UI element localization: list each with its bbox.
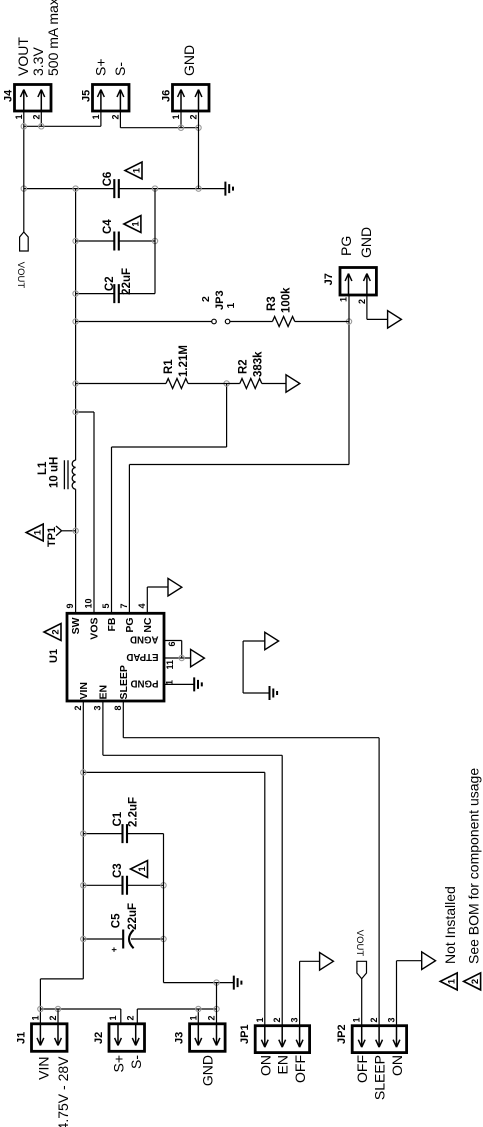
svg-text:2: 2 — [369, 1017, 379, 1022]
svg-text:OFF: OFF — [354, 1055, 370, 1083]
svg-text:1: 1 — [30, 1015, 40, 1020]
capacitor C5 polarized — [122, 930, 124, 949]
resistor R2 — [240, 379, 262, 389]
junction J1 pin1 tie — [38, 1006, 43, 1011]
svg-text:S+: S+ — [111, 1055, 127, 1073]
triangle 1 marker at C4 — [124, 216, 141, 233]
svg-text:R2: R2 — [238, 359, 250, 374]
svg-text:L1: L1 — [37, 461, 49, 475]
svg-text:EN: EN — [97, 685, 109, 700]
svg-text:3: 3 — [290, 1017, 300, 1022]
wire C5 to input GND rail — [131, 938, 164, 940]
wire FB pin 5 to divider tap — [112, 384, 227, 614]
wire C3 to input GND rail — [127, 884, 164, 886]
net flag VOUT at JP2 — [357, 961, 367, 978]
svg-text:10 uH: 10 uH — [49, 457, 61, 488]
junction AGND-ETPAD — [179, 655, 184, 660]
connector J1 — [32, 1024, 68, 1052]
ground triangle AGND of net tie — [265, 632, 279, 650]
ground symbol GND of net tie — [270, 686, 278, 700]
svg-text:2: 2 — [73, 706, 83, 711]
svg-text:1: 1 — [338, 297, 348, 302]
wire VIN to J1 pin 1 — [40, 979, 83, 1024]
wire PGND pin 1 to ground — [164, 683, 194, 685]
wire ETPAD pin 11 to ground — [164, 657, 191, 659]
svg-text:EN: EN — [275, 1055, 291, 1074]
ground triangle at JP1 pin 3 — [320, 953, 334, 971]
wire R2 to AGND — [262, 383, 286, 385]
svg-text:GND: GND — [200, 1055, 216, 1086]
svg-text:NC: NC — [142, 617, 154, 633]
junction J6 pin1 — [178, 125, 183, 130]
connector J3 — [190, 1024, 226, 1052]
svg-text:1.21M: 1.21M — [178, 345, 190, 377]
jumper JP3 pin 1 — [225, 319, 230, 324]
legend triangle 2 — [464, 973, 481, 990]
ground triangle at NC pin — [168, 578, 182, 596]
wire VIN rail down to C3 — [83, 884, 122, 886]
connector J6 — [173, 85, 210, 112]
svg-text:ON: ON — [389, 1055, 405, 1076]
svg-text:See BOM for component usage: See BOM for component usage — [466, 768, 482, 964]
svg-text:C5: C5 — [110, 913, 122, 928]
junction divider on VOUT rail — [73, 381, 78, 386]
capacitor C6 — [114, 179, 119, 198]
wire VOS pin 10 to VOUT rail — [76, 412, 94, 613]
connector JP2 — [352, 1026, 406, 1053]
wire input GND drop — [164, 982, 234, 984]
junction C1 on VIN rail — [81, 831, 86, 836]
svg-text:J4: J4 — [3, 89, 15, 102]
resistor R3 — [272, 317, 294, 327]
triangle 2 marker at U1 — [44, 624, 61, 641]
svg-text:GND: GND — [358, 227, 374, 258]
svg-text:TP1: TP1 — [46, 527, 58, 547]
ground triangle below R2 — [286, 375, 300, 393]
junction J3 pin2 tie — [214, 1006, 219, 1011]
svg-text:2: 2 — [357, 299, 367, 304]
svg-text:2: 2 — [110, 115, 120, 120]
svg-text:FB: FB — [106, 617, 118, 631]
wire SLEEP pin to JP2 pin 2 — [123, 701, 379, 1026]
svg-text:5: 5 — [101, 603, 111, 608]
wire JP2 pin 3 to ground — [397, 961, 422, 1026]
jumper JP3 pin 2 — [212, 319, 217, 324]
svg-text:JP2: JP2 — [336, 1024, 348, 1044]
junction FB divider tap — [224, 381, 229, 386]
net flag VOUT at output — [20, 232, 29, 251]
junction C3 bottom — [161, 883, 166, 888]
junction J3 pin1 tie — [196, 1006, 201, 1011]
wire VOUT node down to C6 — [24, 188, 115, 190]
wire JP3 pin1 to R3 — [230, 321, 273, 323]
junction C2 on VOUT rail — [73, 291, 78, 296]
wire VOUT to R1 — [76, 383, 166, 385]
svg-text:J1: J1 — [16, 1032, 28, 1044]
svg-text:GND: GND — [181, 45, 197, 76]
svg-text:VOS: VOS — [89, 618, 101, 640]
svg-text:22uF: 22uF — [121, 268, 133, 295]
wire VIN rail down to C1 — [83, 833, 122, 835]
svg-text:J3: J3 — [174, 1032, 186, 1044]
svg-text:C2: C2 — [104, 276, 116, 291]
connector J5 — [93, 85, 130, 112]
wire J1 pin 2 stub — [57, 1009, 59, 1024]
connector J7 — [340, 268, 376, 296]
svg-text:3.3V: 3.3V — [30, 47, 46, 76]
junction C4 on VOUT rail — [73, 238, 78, 243]
svg-text:S+: S+ — [93, 58, 109, 76]
ground symbol input GND — [234, 976, 242, 990]
ground triangle AGND at ETPAD — [191, 649, 205, 667]
svg-text:383k: 383k — [253, 351, 265, 377]
connector J4 — [15, 85, 52, 112]
svg-text:4: 4 — [137, 603, 147, 608]
wire VOUT to JP3 pin 2 — [76, 321, 212, 323]
ground triangle at J7 pin 2 — [388, 311, 402, 329]
junction C3 on VIN rail — [81, 883, 86, 888]
junction VOUT rail at C6 column — [73, 186, 78, 191]
svg-text:2: 2 — [31, 115, 41, 120]
svg-text:J6: J6 — [161, 90, 173, 102]
svg-text:2: 2 — [470, 979, 481, 984]
svg-text:C1: C1 — [112, 811, 124, 826]
wire J7 pin 2 to ground — [367, 295, 388, 319]
svg-text:1: 1 — [171, 115, 181, 120]
svg-text:3: 3 — [387, 1017, 397, 1022]
connector JP1 — [255, 1026, 309, 1053]
svg-text:2: 2 — [207, 1015, 217, 1020]
svg-text:1: 1 — [130, 221, 141, 227]
svg-text:S-: S- — [128, 1055, 144, 1069]
wire VIN rail — [82, 701, 84, 979]
svg-text:J5: J5 — [81, 90, 93, 102]
wire GND node to J6 pin 2 — [198, 111, 200, 189]
svg-text:S-: S- — [112, 62, 128, 76]
wire R3 to PG node — [295, 321, 349, 323]
svg-text:500 mA max: 500 mA max — [45, 0, 61, 76]
op-amp U1 TPS62125 body — [67, 613, 164, 701]
svg-text:C6: C6 — [102, 172, 114, 187]
capacitor C4 — [114, 232, 119, 251]
svg-text:4.75V - 28V: 4.75V - 28V — [55, 1056, 71, 1127]
svg-text:11: 11 — [165, 660, 175, 670]
svg-text:1: 1 — [33, 529, 44, 535]
wire J3 pin 1 stub — [197, 1009, 199, 1024]
ground symbol PGND — [194, 677, 202, 691]
wire EN pin to JP1 pin 2 — [103, 701, 282, 1026]
svg-text:PG: PG — [124, 618, 136, 633]
triangle 1 marker at C3 — [131, 861, 148, 878]
wire J6 pin 1 stub — [180, 111, 182, 128]
junction J1 pin2 tie — [55, 1006, 60, 1011]
wire VOUT rail down to C2 — [76, 293, 115, 295]
junction C5 on VIN rail — [81, 936, 86, 941]
wire VOUT to J4 pin 1 — [23, 111, 25, 232]
capacitor C2 — [114, 284, 119, 303]
svg-text:1: 1 — [447, 978, 458, 984]
svg-text:AGND: AGND — [130, 634, 159, 645]
wire JP1 pin 3 to ground — [300, 961, 320, 1025]
wire R1 to R2 — [188, 383, 240, 385]
resistor R1 — [166, 379, 188, 389]
junction JP3 on VOUT rail — [73, 319, 78, 324]
junction J3 pin2 tap — [214, 980, 219, 985]
svg-text:2.2uF: 2.2uF — [127, 797, 139, 827]
svg-text:PGND: PGND — [131, 678, 159, 689]
wire C2 bottom along GND tie — [119, 189, 155, 294]
svg-text:C4: C4 — [102, 219, 114, 234]
svg-text:1: 1 — [352, 1017, 362, 1022]
junction J6 pin2 — [196, 125, 201, 130]
svg-text:VOUT: VOUT — [15, 262, 26, 289]
capacitor C1 — [123, 824, 128, 843]
svg-text:R3: R3 — [266, 296, 278, 311]
svg-text:+: + — [109, 947, 119, 952]
junction VOUT at J4 wire — [21, 186, 26, 191]
svg-text:OFF: OFF — [292, 1055, 308, 1083]
wire PG node to J7 pin 1 — [348, 295, 350, 322]
svg-text:R1: R1 — [163, 359, 175, 374]
wire SW from U1 pin 9 to L1 — [75, 489, 77, 613]
wire PG pin 7 to J7/R3 — [129, 322, 349, 614]
svg-text:8: 8 — [113, 706, 123, 711]
svg-text:ON: ON — [257, 1055, 273, 1076]
svg-text:PG: PG — [338, 236, 354, 256]
svg-text:3: 3 — [92, 706, 102, 711]
test point TP1 — [62, 530, 76, 532]
svg-text:7: 7 — [119, 603, 129, 608]
wire J3 pin 2 to GND node — [216, 983, 218, 1024]
capacitor C3 — [123, 876, 128, 895]
junction VOS tap — [73, 409, 78, 414]
junction GND tie at C6 column — [152, 186, 157, 191]
svg-text:JP1: JP1 — [239, 1024, 251, 1044]
svg-text:VOUT: VOUT — [15, 37, 31, 76]
svg-text:2: 2 — [51, 629, 62, 634]
triangle 1 marker at C6 — [125, 162, 142, 179]
wire NC pin 4 stub — [147, 587, 168, 613]
svg-text:2: 2 — [48, 1015, 58, 1020]
svg-text:VIN: VIN — [36, 1057, 52, 1080]
svg-text:1: 1 — [108, 1015, 118, 1020]
svg-text:100k: 100k — [281, 287, 293, 313]
svg-text:SLEEP: SLEEP — [118, 665, 130, 699]
svg-text:2: 2 — [126, 1015, 136, 1020]
svg-text:6: 6 — [167, 642, 177, 647]
svg-text:Not Installed: Not Installed — [442, 886, 458, 964]
wire VIN to JP1 pin 1 — [83, 772, 264, 1025]
junction C5 bottom — [161, 936, 166, 941]
wire C4 to GND tie — [119, 240, 155, 242]
wire VOUT rail down to C4 — [76, 240, 115, 242]
ground symbol output GND — [225, 182, 233, 196]
svg-text:2: 2 — [272, 1017, 282, 1022]
wire C1 to input GND rail — [127, 833, 164, 835]
junction TP1 on SW net — [73, 528, 78, 533]
wire input GND rail — [163, 834, 165, 983]
legend triangle 1 — [440, 973, 457, 990]
svg-text:1: 1 — [137, 866, 148, 872]
junction J6 wire at C6 column — [196, 186, 201, 191]
connector J2 — [109, 1024, 145, 1052]
triangle 1 marker at TP1 — [26, 524, 43, 541]
svg-text:9: 9 — [65, 603, 75, 608]
wire J4 pin 2 stub — [40, 111, 42, 126]
wire VOUT tie to J5 pin 1 — [24, 111, 101, 126]
wire J5 pin 2 GND tie — [120, 111, 198, 128]
svg-text:22uF: 22uF — [127, 903, 139, 930]
svg-text:1: 1 — [188, 1015, 198, 1020]
svg-text:SW: SW — [70, 617, 82, 634]
svg-text:1: 1 — [255, 1017, 265, 1022]
junction PG node — [346, 319, 351, 324]
svg-text:1: 1 — [91, 115, 101, 120]
wire VIN tie J1 to J2 pin 1 — [40, 1009, 120, 1024]
svg-text:VIN: VIN — [78, 682, 90, 700]
svg-text:J2: J2 — [93, 1032, 105, 1044]
svg-text:ETPAD: ETPAD — [126, 651, 158, 662]
inductor L1 — [72, 460, 75, 489]
svg-text:1: 1 — [225, 303, 237, 309]
ground triangle at JP2 pin 3 — [422, 952, 436, 970]
svg-text:2: 2 — [200, 296, 212, 302]
wire JP2 pin 1 to VOUT flag — [361, 979, 363, 1026]
wire AGND to GND net tie — [243, 641, 269, 693]
junction JP1 feed on VIN rail — [81, 770, 86, 775]
svg-text:VOUT: VOUT — [354, 930, 365, 957]
junction C4 bottom — [152, 238, 157, 243]
junction J4 pin1 tie — [21, 124, 26, 129]
svg-text:2: 2 — [189, 115, 199, 120]
wire VIN rail down to C5 — [83, 938, 123, 940]
wire AGND pin 6 to ETPAD net — [164, 641, 182, 659]
wire GND tie J2 pin 2 — [137, 1009, 216, 1024]
wire VOUT rail L1 to C6 node — [75, 189, 77, 461]
svg-text:1: 1 — [14, 115, 24, 120]
svg-text:J7: J7 — [323, 273, 335, 285]
svg-text:C3: C3 — [112, 863, 124, 878]
svg-text:1: 1 — [132, 167, 143, 173]
junction J4 pin2 tie — [39, 124, 44, 129]
wire C6 to ground — [119, 188, 226, 190]
svg-text:10: 10 — [84, 598, 94, 608]
svg-text:SLEEP: SLEEP — [372, 1055, 388, 1100]
svg-text:U1: U1 — [48, 649, 60, 663]
